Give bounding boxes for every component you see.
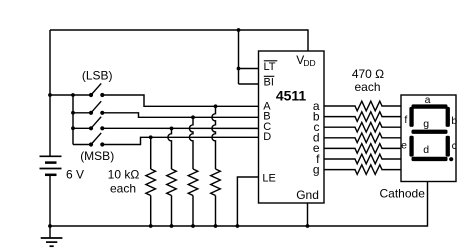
svg-text:10 kΩ: 10 kΩ: [108, 168, 140, 182]
wire: switch1 to pin A: [102, 95, 258, 106]
wire: Gnd pin to ground rail: [307, 203, 309, 226]
node: bus row 1: [71, 93, 75, 97]
svg-text:4511: 4511: [276, 87, 307, 103]
segment c bar: [446, 136, 450, 157]
svg-text:a: a: [425, 94, 431, 106]
svg-text:6 V: 6 V: [66, 168, 84, 182]
node: R1 ground junction: [149, 224, 153, 228]
svg-text:DD: DD: [303, 58, 315, 68]
wire: top supply rail: [50, 29, 308, 31]
wire: resistor to display segment e: [381, 147, 401, 149]
wire: IC pin d to resistor: [324, 137, 356, 139]
segment f bar: [409, 107, 413, 127]
svg-text:LE: LE: [262, 173, 275, 185]
wire: resistor to display segment d: [381, 137, 401, 139]
svg-text:each: each: [354, 80, 380, 94]
wire: LT branch: [239, 68, 259, 70]
switch S2: [89, 101, 105, 115]
node: bus row 3: [71, 126, 75, 130]
wire: resistor R1 to ground rail: [150, 196, 152, 227]
resistor 470 Ra: [355, 101, 382, 111]
IC U1 4511 outline: [259, 51, 325, 203]
node: top rail junction to LT/BI feeder: [237, 28, 241, 32]
wire: IC pin g to resistor: [324, 169, 356, 171]
wire: row 1 feed to switch: [50, 94, 91, 96]
switch S3: [89, 117, 105, 131]
wire: resistor to display segment g: [381, 169, 401, 171]
pin label LT (active low): [264, 61, 278, 73]
wire: LE to ground rail: [237, 177, 258, 226]
segment g bar: [412, 130, 448, 134]
switch S1 (LSB): [89, 83, 105, 97]
decimal point: [449, 157, 453, 161]
wire: battery negative to bottom rail: [49, 176, 51, 226]
segment e bar: [409, 136, 413, 157]
resistor 470 Rd: [355, 133, 382, 143]
segment a bar: [412, 104, 448, 108]
resistor 10k R1: [146, 169, 156, 196]
svg-text:(MSB): (MSB): [80, 149, 114, 163]
wire: resistor to display segment f: [381, 158, 401, 160]
resistor 10k R3: [188, 169, 198, 196]
wire: switch3 to pin C: [102, 127, 258, 129]
wire: left rail from top to battery: [49, 30, 51, 156]
svg-text:470 Ω: 470 Ω: [352, 67, 384, 81]
wire: resistor R3 to ground rail: [192, 196, 194, 227]
label: Vdd: [296, 53, 315, 68]
resistor 10k R4: [211, 169, 221, 196]
svg-text:LT: LT: [264, 61, 276, 73]
wire: switch4 to pin D: [102, 137, 258, 144]
svg-text:Gnd: Gnd: [296, 188, 319, 202]
wire: resistor to display segment a: [381, 105, 401, 107]
wire: BI branch: [239, 83, 259, 85]
svg-text:(LSB): (LSB): [82, 69, 113, 83]
wire: switch feed bus vertical: [72, 95, 74, 145]
wire: IC pin b to resistor: [324, 116, 356, 118]
svg-text:D: D: [263, 131, 271, 143]
svg-text:b: b: [451, 115, 457, 127]
node: pulldown tap on C line: [170, 126, 174, 130]
node: Gnd rail junction: [306, 224, 310, 228]
svg-text:f: f: [404, 114, 407, 126]
node: pulldown tap on A line: [214, 104, 218, 108]
wire: resistor to display segment b: [381, 116, 401, 118]
node: pulldown tap on B line: [191, 115, 195, 119]
wire: bus stub to switch 3: [73, 127, 91, 129]
wire: display cathode to ground rail: [427, 182, 429, 227]
svg-text:Cathode: Cathode: [380, 187, 426, 201]
node: R3 ground junction: [191, 224, 195, 228]
svg-text:BI: BI: [264, 76, 274, 88]
switch S4 (MSB): [89, 133, 105, 147]
wire: IC pin e to resistor: [324, 147, 356, 149]
wire: pulldown drop D (with crossover hops): [150, 137, 152, 169]
wire: switch2 to pin B: [102, 113, 258, 118]
pin label BI (active low): [264, 76, 275, 88]
wire: LT/BI feeder vertical: [238, 30, 240, 84]
wire: IC pin f to resistor: [324, 158, 356, 160]
node: R4 ground junction: [214, 224, 218, 228]
wire: pulldown drop A (with crossover hops): [212, 106, 216, 169]
resistor 470 Rc: [355, 122, 382, 132]
wire: pulldown drop B (with crossover hops): [189, 117, 193, 169]
svg-text:g: g: [313, 162, 320, 176]
node: pulldown tap on D line: [149, 135, 153, 139]
resistor 10k R2: [167, 169, 177, 196]
wire: IC pin a to resistor: [324, 105, 356, 107]
node: battery / ground-symbol junction: [48, 224, 52, 228]
svg-text:d: d: [423, 144, 429, 156]
svg-text:each: each: [110, 181, 136, 195]
resistor 470 Rg: [355, 165, 382, 175]
wire: resistor R2 to ground rail: [171, 196, 173, 227]
wire: IC pin c to resistor: [324, 126, 356, 128]
segment d bar: [412, 157, 448, 161]
node: R2 ground junction: [170, 224, 174, 228]
node: rail / switch row 1 junction: [48, 93, 52, 97]
node: LE ground junction: [236, 224, 240, 228]
wire: resistor R4 to ground rail: [215, 196, 217, 227]
resistor 470 Rb: [355, 112, 382, 122]
display DS1 outline (7-segment): [401, 95, 456, 182]
resistor 470 Re: [355, 144, 382, 154]
segment b bar: [446, 107, 450, 127]
wire: Vdd drop to IC top: [307, 29, 309, 51]
wire: bus stub to switch 2: [73, 112, 91, 114]
svg-text:g: g: [423, 118, 429, 130]
ground symbol: [41, 226, 63, 246]
battery 6 V: [40, 155, 62, 157]
node: bus row 2: [71, 111, 75, 115]
svg-text:c: c: [452, 140, 457, 152]
node: LT branch junction: [237, 67, 241, 71]
wire: bottom ground rail: [50, 225, 428, 227]
resistor 470 Rf: [355, 154, 382, 164]
wire: pulldown drop C (with crossover hops): [168, 128, 172, 169]
wire: resistor to display segment c: [381, 126, 401, 128]
wire: bus stub to switch 4: [73, 144, 91, 146]
svg-text:e: e: [401, 140, 407, 152]
